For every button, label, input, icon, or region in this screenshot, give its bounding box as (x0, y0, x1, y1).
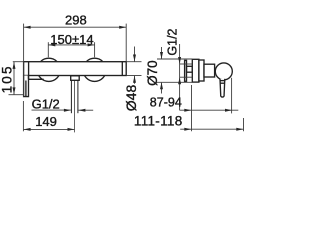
svg-text:111-118: 111-118 (134, 113, 183, 128)
svg-text:Ø48: Ø48 (123, 85, 139, 112)
svg-text:Ø70: Ø70 (145, 60, 160, 86)
svg-text:G1/2: G1/2 (32, 96, 60, 111)
svg-text:G1/2: G1/2 (165, 28, 179, 55)
svg-text:298: 298 (65, 12, 87, 27)
svg-text:150±14: 150±14 (50, 32, 93, 47)
svg-text:149: 149 (35, 114, 57, 129)
svg-text:87-94: 87-94 (150, 95, 182, 109)
svg-text:105: 105 (0, 64, 15, 93)
